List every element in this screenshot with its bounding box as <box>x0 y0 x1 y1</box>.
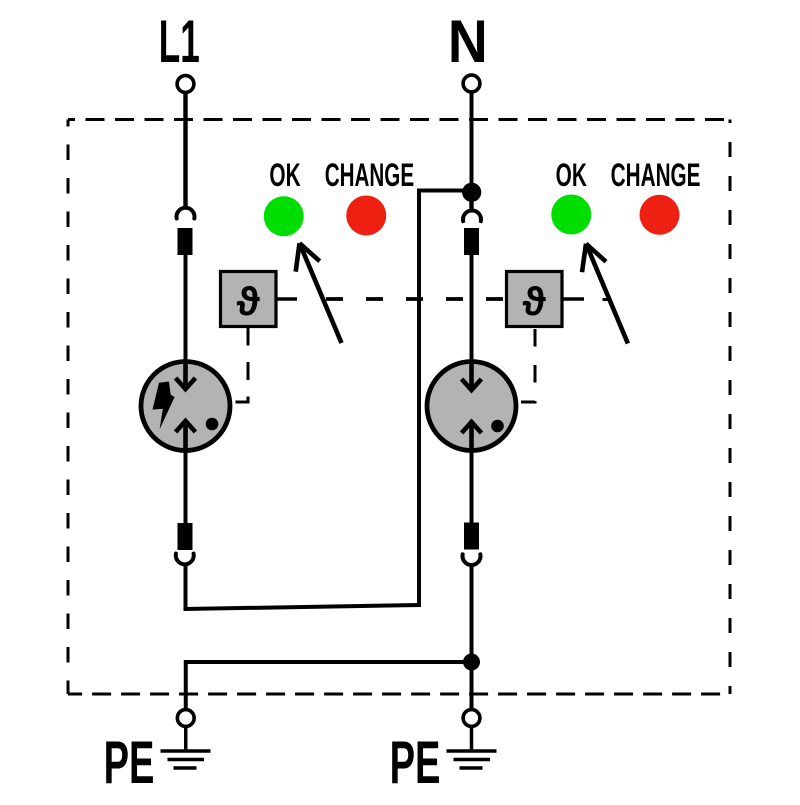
svg-text:N: N <box>448 9 488 76</box>
svg-text:PE: PE <box>104 729 155 796</box>
wire PE junction down to right PE terminal <box>470 662 474 709</box>
wire F2 to lower block <box>470 420 474 523</box>
label OK left <box>269 158 301 194</box>
enclosure dashed border top <box>68 118 730 121</box>
label N <box>448 9 488 76</box>
wire junction to disconnect arc (N path) <box>469 191 473 212</box>
wire block to spark gap F1 <box>184 255 188 385</box>
wire block to spark gap F2 <box>470 255 474 385</box>
terminal PE right <box>463 710 480 727</box>
wire F1 to lower block <box>184 420 188 523</box>
stub wire right of U1 <box>276 297 297 301</box>
thermal disconnect element (black block, top of N path) <box>464 228 479 255</box>
svg-text:ϑ: ϑ <box>522 280 546 324</box>
wire N terminal to junction <box>470 92 474 191</box>
enclosure dashed border bottom <box>68 693 730 696</box>
thermal disconnect element (black block, bottom of N path) <box>464 523 479 550</box>
svg-text:OK: OK <box>556 158 588 194</box>
earth symbol left <box>161 727 211 769</box>
label OK right <box>556 158 588 194</box>
wire N path bottom to PE junction <box>470 566 474 662</box>
disconnect contact arc (bottom, L1 path) <box>176 554 194 565</box>
disconnect contact arc (top, L1 path) <box>177 208 195 219</box>
wire L1 terminal to disconnect arc <box>183 93 187 209</box>
dashed link U1 to U2 <box>326 297 506 301</box>
label L1 <box>159 8 200 75</box>
junction node N <box>462 183 481 202</box>
LED CHANGE left (red) <box>346 196 386 236</box>
dashed link U2 to F2 <box>521 329 535 402</box>
indicator arrow left <box>296 243 342 343</box>
terminal N <box>463 75 480 92</box>
earth symbol right <box>447 727 497 769</box>
electrode arrow down (F2) <box>462 362 482 390</box>
junction node PE <box>463 654 480 671</box>
lightning bolt (F1) <box>153 382 175 430</box>
LED OK left (green) <box>264 196 304 236</box>
disconnect contact arc (top, N path) <box>463 210 481 221</box>
terminal L1 <box>177 76 194 93</box>
thermal monitor U1 (theta box, L1 path) <box>221 272 277 327</box>
thermal disconnect element (black block, bottom of L1 path) <box>178 523 193 550</box>
stub wire right of U2 <box>562 297 584 301</box>
electrode arrow down (F1) <box>176 362 196 389</box>
dashed link U1 to F1 <box>234 328 248 403</box>
svg-text:ϑ: ϑ <box>236 280 260 324</box>
gas-filled indicator dot (F2) <box>491 420 504 433</box>
svg-text:CHANGE: CHANGE <box>325 157 414 193</box>
label PE left <box>104 729 155 796</box>
label PE right <box>390 729 441 796</box>
label CHANGE right <box>611 158 701 194</box>
disconnect contact arc (bottom, N path) <box>462 554 480 565</box>
enclosure dashed border left <box>67 120 70 695</box>
terminal PE left <box>177 710 194 727</box>
enclosure dashed border right <box>729 120 732 695</box>
wire PE junction to left PE terminal <box>186 662 472 709</box>
thermal monitor U2 (theta box, N path) <box>507 272 563 327</box>
LED OK right (green) <box>551 195 591 235</box>
label CHANGE left <box>325 157 414 193</box>
indicator arrow right <box>582 244 628 344</box>
wire L1 path bottom to N node <box>186 191 464 610</box>
electrode arrow up (F1) <box>176 421 196 452</box>
gas-filled indicator dot (F1) <box>206 418 219 431</box>
svg-text:OK: OK <box>269 158 301 194</box>
LED CHANGE right (red) <box>640 195 680 235</box>
thermal disconnect element (black block, top of L1 path) <box>178 228 193 255</box>
svg-text:CHANGE: CHANGE <box>611 158 701 194</box>
electrode arrow up (F2) <box>462 422 482 452</box>
svg-text:PE: PE <box>390 729 441 796</box>
spark gap F1 body <box>141 362 230 451</box>
spark gap F2 body <box>427 362 516 451</box>
dash fragment right of U2 stub <box>603 298 610 301</box>
svg-text:L1: L1 <box>159 8 200 75</box>
